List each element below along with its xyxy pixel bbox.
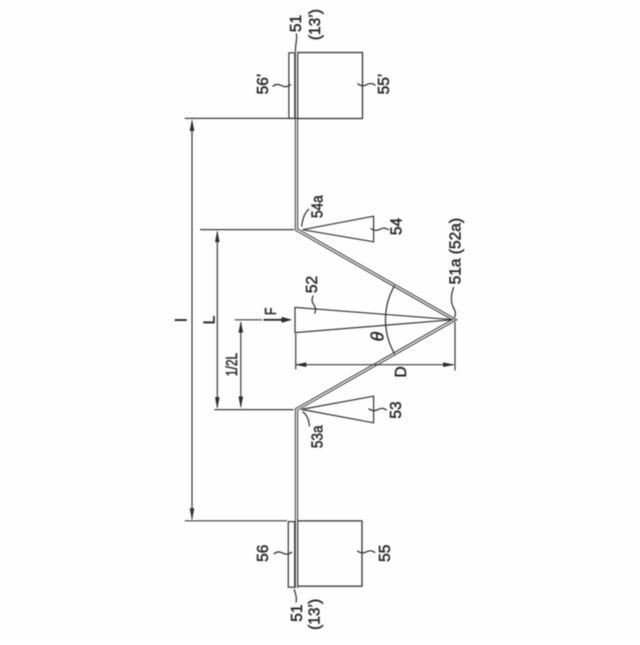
svg-text:54a: 54a	[310, 195, 327, 219]
svg-text:L: L	[201, 315, 218, 324]
layer 56' strip (top)	[289, 53, 295, 119]
block 55' (top)	[298, 53, 363, 119]
cone 53	[302, 396, 374, 423]
svg-text:(13’): (13’)	[307, 9, 324, 40]
svg-text:55’: 55’	[376, 74, 393, 95]
svg-text:θ: θ	[368, 331, 388, 341]
label 56	[255, 545, 292, 562]
svg-text:51a (52a): 51a (52a)	[447, 218, 464, 284]
svg-text:55: 55	[377, 545, 394, 562]
label 52	[304, 276, 321, 314]
dimension l	[174, 118, 298, 520]
cone 54	[303, 216, 374, 242]
svg-text:56’: 56’	[255, 74, 272, 95]
label 55'	[358, 74, 394, 95]
svg-text:51: 51	[289, 604, 306, 621]
svg-text:1/2L: 1/2L	[223, 353, 241, 377]
svg-text:l: l	[174, 318, 191, 321]
cone 52	[295, 307, 454, 332]
angle arc theta	[385, 285, 394, 354]
svg-text:51: 51	[288, 15, 305, 32]
label 56'	[255, 74, 291, 95]
label 55	[357, 545, 394, 562]
svg-text:54: 54	[389, 218, 406, 236]
block 55 (bottom)	[298, 521, 362, 586]
label 51 (13') bottom	[289, 589, 324, 630]
svg-text:56: 56	[255, 545, 272, 562]
svg-text:53a: 53a	[310, 425, 327, 449]
wire: sheet 51 zig-zag double line	[297, 53, 455, 589]
svg-text:D: D	[393, 366, 410, 377]
dimension D	[295, 322, 455, 378]
svg-text:(13’): (13’)	[307, 599, 324, 630]
label 51 (13') top	[288, 9, 324, 52]
label theta	[368, 331, 388, 341]
label 51a (52a)	[447, 218, 464, 317]
label 54a	[302, 195, 327, 227]
label 54	[371, 218, 406, 236]
svg-text:52: 52	[304, 276, 321, 293]
svg-text:F: F	[262, 308, 280, 316]
label 53a	[303, 412, 327, 448]
force arrow F	[262, 308, 292, 323]
svg-text:53: 53	[388, 401, 405, 418]
label 53	[369, 401, 406, 418]
dimension 1/2L	[223, 320, 262, 408]
dimension L	[200, 230, 294, 410]
layer 56 strip (bottom)	[288, 522, 294, 588]
